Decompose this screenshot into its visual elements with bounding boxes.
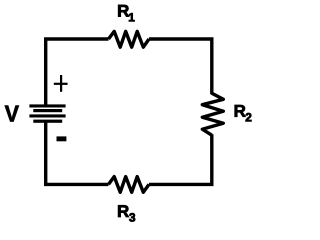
wire bottom-left segment (R3 left lead to battery bottom) xyxy=(46,122,109,185)
battery V plate 1 (long, positive) xyxy=(29,104,65,107)
battery V plate 2 (short) xyxy=(33,109,62,112)
battery V plate 3 (long) xyxy=(29,114,65,117)
label R3 xyxy=(118,205,135,221)
battery minus sign xyxy=(57,136,67,141)
battery V plate 4 (short, negative) xyxy=(33,120,62,123)
label V xyxy=(5,106,19,122)
wire bottom-right segment (R2 bottom lead to R3 right lead) xyxy=(149,134,212,184)
resistor R3 xyxy=(109,177,150,193)
wire top-left segment (battery top to R1 left lead) xyxy=(46,39,109,106)
wire top-right segment (R1 right lead to R2 top lead) xyxy=(149,39,212,94)
label R2 xyxy=(235,105,252,121)
resistor R1 xyxy=(109,31,150,47)
label R1 xyxy=(118,5,134,21)
battery plus sign xyxy=(54,75,68,92)
resistor R2 xyxy=(202,93,223,135)
